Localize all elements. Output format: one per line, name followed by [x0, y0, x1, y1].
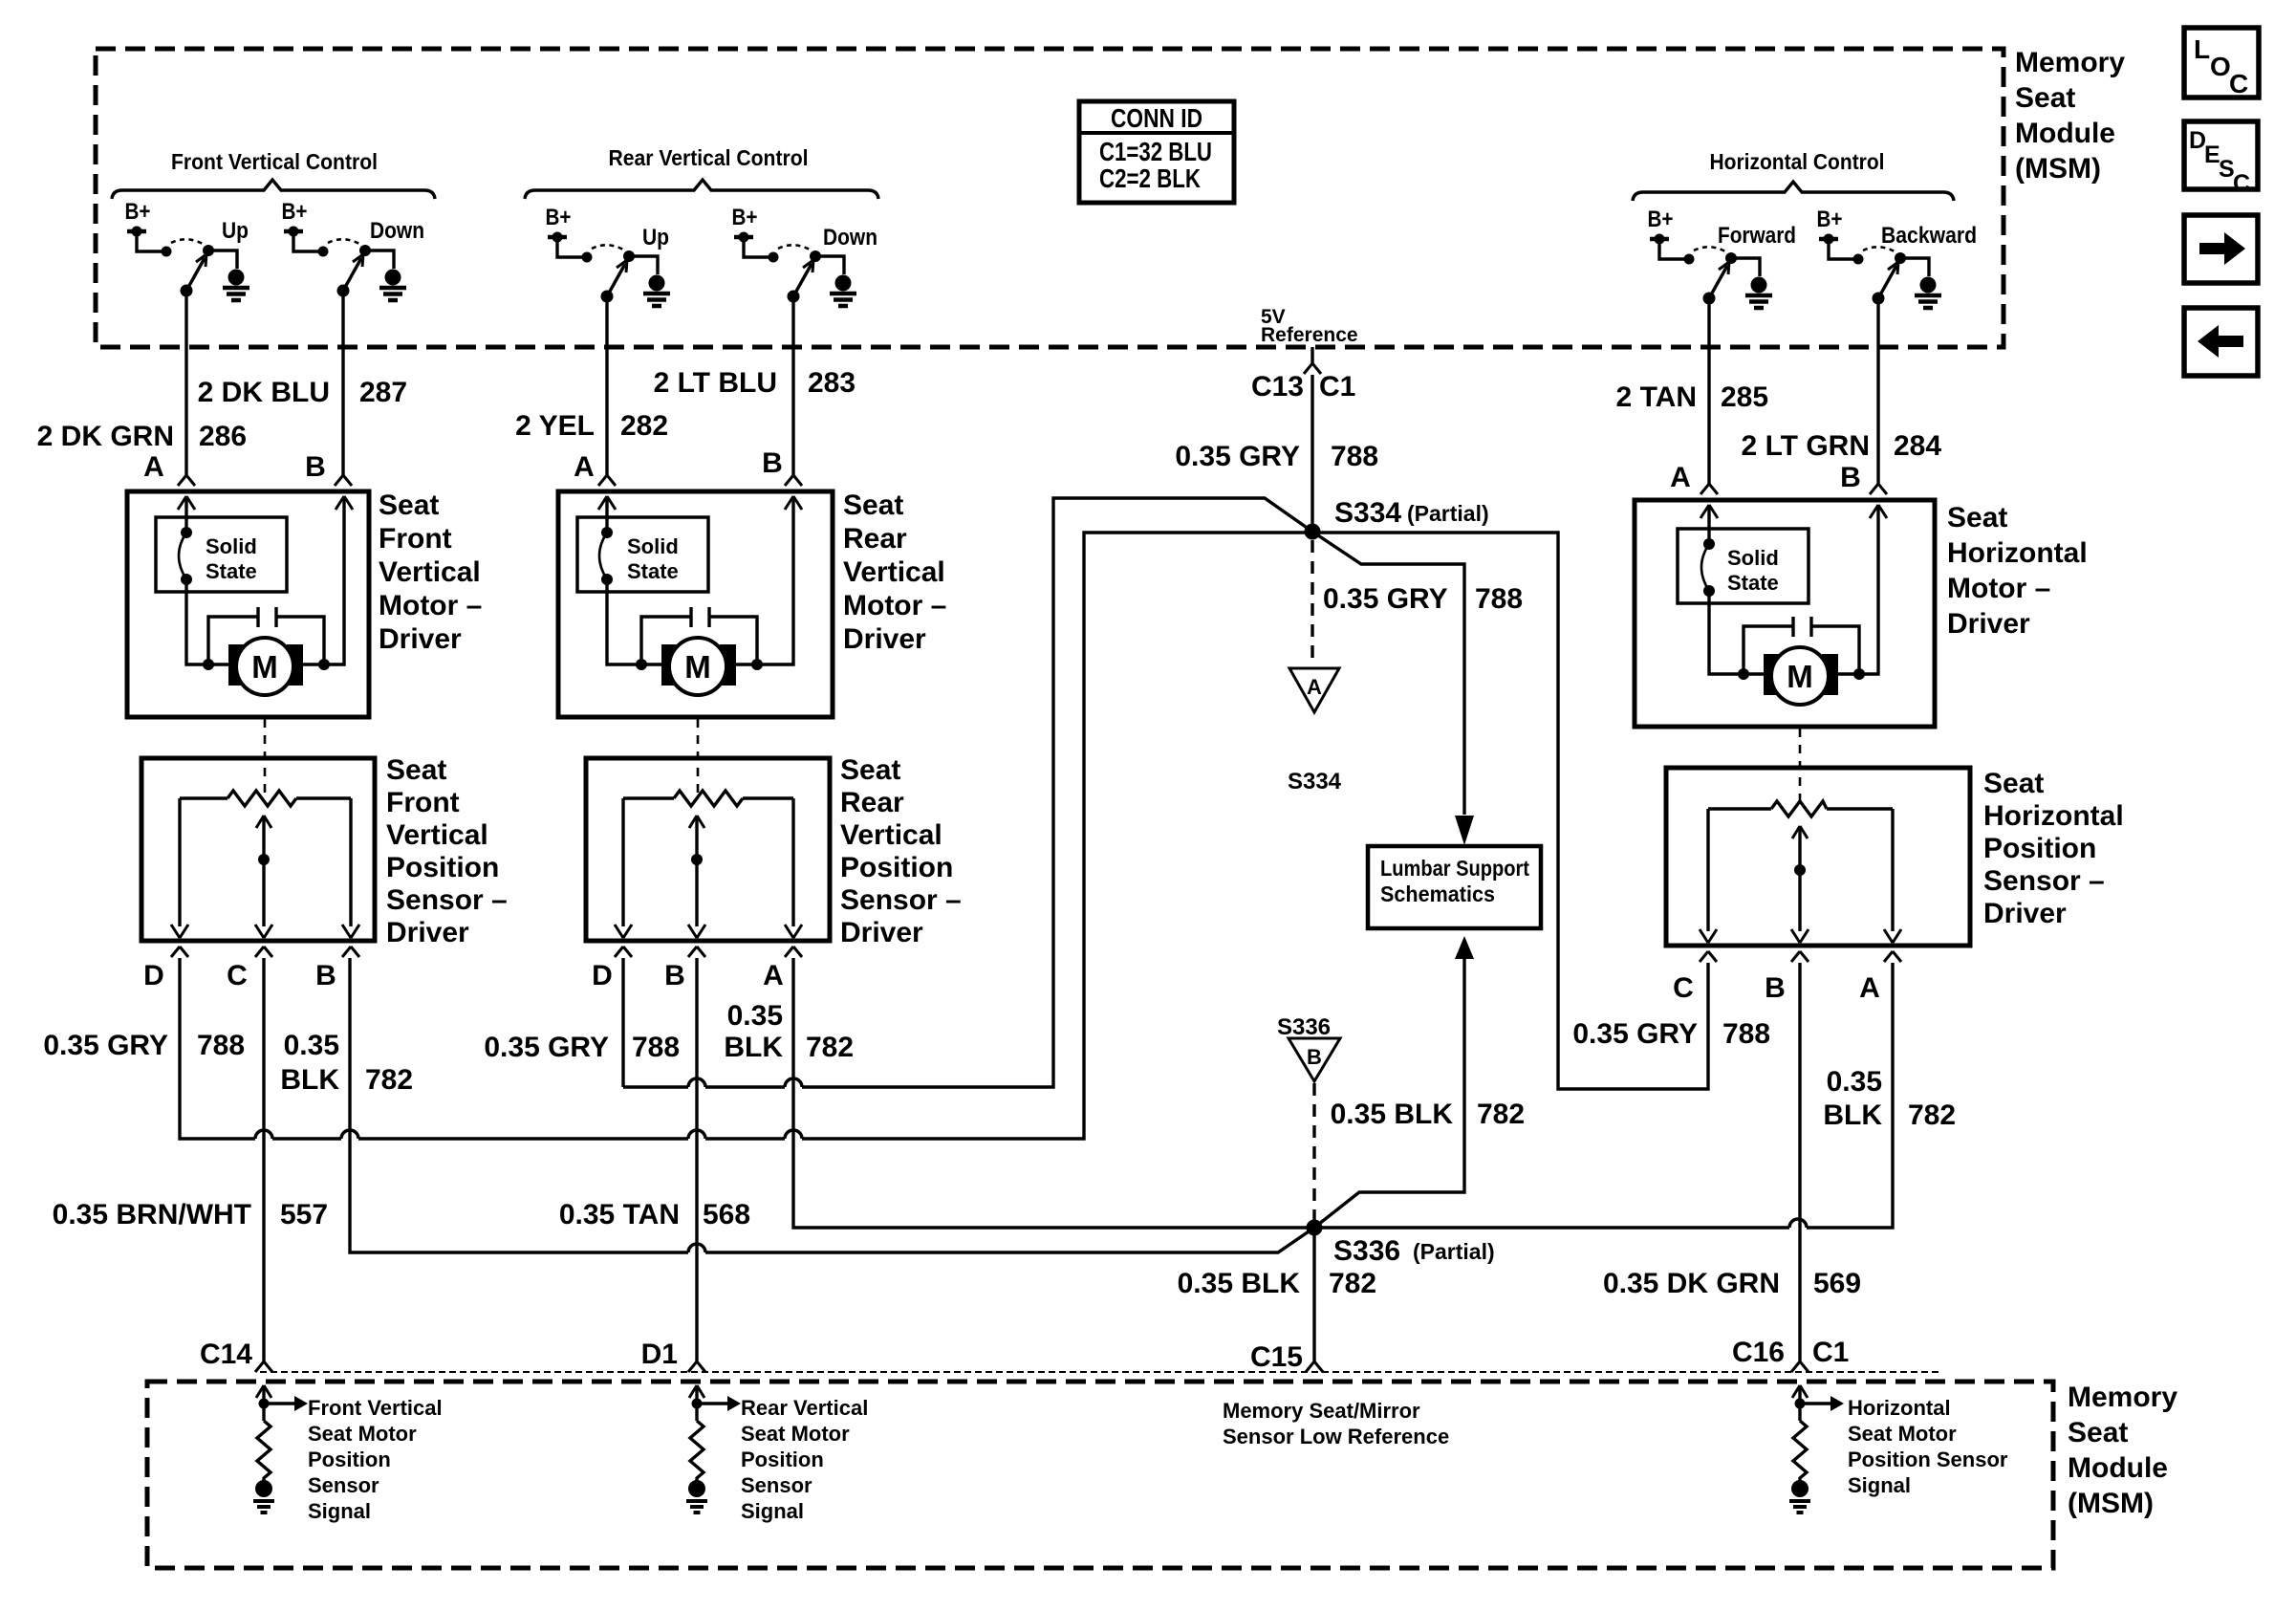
svg-text:782: 782: [806, 1032, 854, 1063]
capacitor bridge (rear): [641, 617, 757, 664]
svg-text:Rear Vertical: Rear Vertical: [741, 1396, 868, 1420]
svg-text:Position Sensor: Position Sensor: [1848, 1448, 2008, 1471]
svg-text:Front: Front: [386, 787, 460, 818]
svg-text:C: C: [1673, 972, 1694, 1004]
wire 2 DK GRN 286 (front A): [184, 291, 187, 475]
svg-text:Solid: Solid: [1727, 546, 1779, 570]
motor M (rear): [661, 644, 678, 686]
horizontal sensor B signal wire to C16: [1798, 963, 1801, 1361]
S336 to C15 wire: [1312, 1228, 1315, 1361]
label: Seat Horizontal Position Sensor - Driver: [1983, 768, 2124, 929]
svg-text:B: B: [315, 960, 336, 991]
svg-text:Sensor Low Reference: Sensor Low Reference: [1223, 1425, 1449, 1448]
svg-text:BLK: BLK: [1823, 1099, 1882, 1131]
wire 2 LT GRN 284 (horizontal B): [1876, 298, 1879, 484]
svg-text:C1=32 BLU: C1=32 BLU: [1099, 137, 1212, 166]
dashed link horizontal motor to sensor: [1799, 729, 1802, 807]
svg-text:Driver: Driver: [840, 917, 923, 948]
svg-text:CONN ID: CONN ID: [1111, 103, 1202, 133]
svg-text:M: M: [1787, 659, 1813, 694]
svg-text:0.35 GRY: 0.35 GRY: [1175, 441, 1300, 472]
svg-text:Backward: Backward: [1881, 223, 1977, 249]
svg-text:Memory: Memory: [2068, 1382, 2177, 1413]
svg-text:(Partial): (Partial): [1413, 1239, 1495, 1264]
DESC icon box: [2184, 121, 2258, 197]
svg-text:2 LT BLU: 2 LT BLU: [654, 367, 777, 399]
right arrow icon box: [2184, 215, 2258, 283]
svg-text:Up: Up: [222, 218, 249, 244]
solid state box (horizontal): [1678, 529, 1809, 603]
motor M (horizontal): [1764, 654, 1780, 695]
brace rear vertical: [525, 180, 878, 199]
svg-text:B: B: [1307, 1045, 1322, 1069]
CONN ID table: [1079, 101, 1234, 203]
solid state box (front): [156, 517, 287, 592]
svg-text:Vertical: Vertical: [379, 556, 481, 588]
svg-text:782: 782: [1329, 1268, 1376, 1299]
rear sensor pin chevrons and labels D B A: [615, 947, 632, 957]
svg-text:D: D: [592, 960, 613, 991]
svg-text:Reference: Reference: [1261, 324, 1358, 346]
Seat Rear Vertical Position Sensor - Driver box: [586, 758, 830, 941]
label: Seat Front Vertical Motor - Driver: [379, 490, 482, 655]
svg-text:Motor –: Motor –: [1947, 573, 2050, 604]
label: Rear Vertical Seat Motor Position Sensor Signal: [741, 1396, 868, 1523]
svg-text:B: B: [1765, 972, 1786, 1004]
svg-text:Sensor –: Sensor –: [386, 884, 508, 916]
svg-text:Sensor: Sensor: [308, 1473, 379, 1497]
Seat Horizontal Motor - Driver box: [1635, 500, 1935, 727]
svg-text:Solid: Solid: [627, 534, 679, 558]
svg-text:C: C: [227, 960, 248, 991]
svg-text:S336: S336: [1277, 1014, 1331, 1040]
svg-text:2 DK GRN: 2 DK GRN: [37, 421, 174, 452]
svg-text:Driver: Driver: [1983, 898, 2067, 929]
svg-text:788: 788: [632, 1032, 680, 1063]
label: Horizontal Seat Motor Position Sensor Signal: [1848, 1396, 2008, 1497]
svg-text:D1: D1: [641, 1339, 678, 1370]
svg-text:285: 285: [1721, 381, 1768, 413]
capacitor bridge (front): [208, 617, 324, 664]
resistor to ground under C16: [1789, 1385, 1844, 1513]
svg-text:Seat: Seat: [379, 490, 439, 521]
svg-text:C15: C15: [1250, 1341, 1303, 1373]
svg-text:Seat: Seat: [2015, 82, 2075, 114]
dashed link front motor to sensor: [264, 719, 267, 796]
svg-text:0.35 GRY: 0.35 GRY: [1323, 583, 1448, 615]
svg-text:A: A: [574, 451, 595, 483]
label: Seat Front Vertical Position Sensor - Driver: [386, 754, 508, 948]
svg-text:Seat Motor: Seat Motor: [308, 1422, 417, 1446]
svg-text:B: B: [762, 447, 783, 479]
front sensor C signal wire to C14: [262, 958, 265, 1361]
svg-text:Signal: Signal: [308, 1499, 371, 1523]
svg-text:Driver: Driver: [843, 623, 926, 655]
label: Seat Horizontal Motor - Driver: [1947, 502, 2088, 640]
S336 bus: rear sensor A to horizontal sensor A: [793, 958, 1893, 1228]
label: Memory Seat Module (MSM) bottom right: [2068, 1382, 2177, 1519]
svg-text:B: B: [664, 960, 685, 991]
svg-text:Position: Position: [741, 1448, 824, 1471]
svg-text:788: 788: [197, 1030, 245, 1061]
resistor to ground under D1: [686, 1385, 741, 1513]
svg-text:0.35: 0.35: [284, 1030, 339, 1061]
svg-text:Sensor –: Sensor –: [840, 884, 962, 916]
dashed wire S334 to triangle A: [1310, 540, 1313, 665]
svg-text:C16: C16: [1732, 1337, 1785, 1368]
svg-text:B+: B+: [125, 199, 151, 225]
svg-text:Motor –: Motor –: [379, 590, 482, 621]
svg-text:B: B: [1840, 462, 1861, 493]
svg-text:782: 782: [365, 1064, 413, 1096]
motor M (front): [228, 644, 245, 686]
svg-text:C1: C1: [1319, 371, 1355, 403]
svg-text:B+: B+: [546, 205, 572, 230]
svg-text:State: State: [206, 559, 257, 583]
horizontal sensor pin chevrons and labels C B A: [1700, 951, 1717, 962]
svg-text:Seat: Seat: [1947, 502, 2007, 533]
svg-text:557: 557: [280, 1199, 328, 1230]
return arrow from S336 into lumbar box bottom: [1455, 936, 1474, 959]
capacitor bridge (horizontal): [1744, 626, 1859, 674]
wire 2 DK BLU 287 (front B): [341, 291, 344, 475]
svg-text:282: 282: [620, 410, 668, 442]
svg-text:State: State: [1727, 571, 1779, 595]
svg-text:B+: B+: [732, 205, 758, 230]
svg-text:Solid: Solid: [206, 534, 257, 558]
svg-text:0.35 DK GRN: 0.35 DK GRN: [1603, 1268, 1780, 1299]
svg-text:Position: Position: [308, 1448, 391, 1471]
svg-text:Front Vertical: Front Vertical: [308, 1396, 443, 1420]
svg-text:M: M: [684, 649, 711, 685]
svg-text:Sensor: Sensor: [741, 1473, 812, 1497]
label: Memory Seat/Mirror Sensor Low Reference: [1223, 1399, 1449, 1448]
svg-text:Horizontal Control: Horizontal Control: [1710, 149, 1885, 174]
svg-text:283: 283: [808, 367, 856, 399]
svg-text:(MSM): (MSM): [2015, 153, 2101, 185]
svg-text:Memory: Memory: [2015, 47, 2125, 78]
svg-text:0.35 GRY: 0.35 GRY: [1572, 1018, 1698, 1050]
LOC icon box: [2184, 28, 2259, 98]
switch Horizontal Forward with B+ and ground: [1650, 234, 1772, 309]
svg-text:Position: Position: [386, 852, 499, 883]
svg-text:Down: Down: [823, 225, 877, 250]
svg-text:2 DK BLU: 2 DK BLU: [198, 377, 330, 408]
svg-text:788: 788: [1331, 441, 1378, 472]
svg-text:Motor –: Motor –: [843, 590, 946, 621]
svg-text:(Partial): (Partial): [1407, 501, 1489, 526]
svg-text:Horizontal: Horizontal: [1983, 800, 2124, 832]
front sensor B wire to S336 (0.35 BLK 782): [350, 958, 1314, 1252]
arrowhead into lumbar box: [1455, 816, 1474, 845]
svg-text:Seat Motor: Seat Motor: [741, 1422, 850, 1446]
wire S334 to rear sensor D (0.35 GRY 788): [623, 498, 1312, 1087]
svg-text:782: 782: [1908, 1099, 1956, 1131]
svg-text:B+: B+: [282, 199, 308, 225]
solid state box (rear): [577, 517, 708, 592]
svg-text:Sensor –: Sensor –: [1983, 865, 2105, 897]
Seat Front Vertical Position Sensor - Driver box: [141, 758, 375, 941]
svg-text:Memory Seat/Mirror: Memory Seat/Mirror: [1223, 1399, 1420, 1423]
svg-text:Vertical: Vertical: [840, 819, 942, 851]
svg-text:M: M: [251, 649, 278, 685]
svg-text:Down: Down: [370, 218, 424, 244]
svg-text:Front: Front: [379, 523, 452, 555]
resistor to ground under C14: [253, 1385, 308, 1513]
svg-text:0.35: 0.35: [1827, 1066, 1882, 1098]
svg-text:Seat: Seat: [1983, 768, 2044, 799]
switch Front Down with B+ and ground: [284, 227, 406, 301]
svg-text:A: A: [143, 451, 164, 483]
svg-text:A: A: [1670, 462, 1691, 493]
svg-text:0.35: 0.35: [727, 1000, 783, 1032]
label: Seat Rear Vertical Position Sensor - Driver: [840, 754, 962, 948]
label: Seat Rear Vertical Motor - Driver: [843, 490, 946, 655]
off-page triangle A (S334): [1289, 668, 1339, 712]
splice S334: [1305, 524, 1321, 540]
svg-text:A: A: [1307, 675, 1322, 699]
svg-text:Seat: Seat: [386, 754, 446, 786]
svg-text:Schematics: Schematics: [1380, 882, 1495, 906]
svg-text:C14: C14: [200, 1339, 252, 1370]
Lumbar Support Schematics box: [1368, 846, 1541, 928]
svg-text:Lumbar Support: Lumbar Support: [1380, 856, 1529, 881]
svg-text:O: O: [2210, 52, 2231, 81]
splice S336: [1307, 1220, 1323, 1236]
svg-text:Position: Position: [840, 852, 953, 883]
left arrow icon box: [2184, 308, 2258, 376]
svg-text:Seat: Seat: [843, 490, 903, 521]
svg-text:Forward: Forward: [1718, 223, 1796, 249]
wire 5V ref C13 to S334: [1310, 375, 1313, 532]
svg-text:Rear Vertical Control: Rear Vertical Control: [609, 145, 809, 170]
svg-text:L: L: [2194, 34, 2210, 64]
connector chevrons C14 D1 C15 C16: [255, 1361, 272, 1372]
svg-text:B+: B+: [1648, 207, 1674, 232]
off-page triangle B (S336): [1289, 1038, 1340, 1081]
svg-text:B: B: [305, 451, 326, 483]
C13 connector stub: [1310, 347, 1313, 363]
svg-text:788: 788: [1475, 583, 1523, 615]
svg-text:Horizontal: Horizontal: [1947, 537, 2088, 569]
svg-text:Position: Position: [1983, 833, 2096, 864]
svg-text:Seat Motor: Seat Motor: [1848, 1422, 1957, 1446]
dashed wire triangle B to S336: [1312, 1083, 1315, 1220]
rear sensor D wire from chevron: [621, 958, 624, 1087]
svg-text:A: A: [763, 960, 784, 991]
Seat Horizontal Position Sensor - Driver box: [1666, 768, 1970, 946]
wire S334 to horizontal sensor C (0.35 GRY 788): [1312, 533, 1708, 1089]
svg-text:788: 788: [1722, 1018, 1770, 1050]
svg-text:0.35 GRY: 0.35 GRY: [484, 1032, 609, 1063]
label: Front Vertical Seat Motor Position Sensor Signal: [308, 1396, 443, 1523]
svg-text:C2=2 BLK: C2=2 BLK: [1099, 163, 1201, 193]
svg-text:568: 568: [703, 1199, 750, 1230]
svg-text:Seat: Seat: [2068, 1417, 2128, 1448]
svg-text:Front Vertical Control: Front Vertical Control: [171, 149, 378, 174]
thin dashed connector face line: [260, 1371, 1940, 1373]
svg-text:2 YEL: 2 YEL: [515, 410, 595, 442]
switch Front Up with B+ and ground: [127, 227, 249, 301]
svg-text:D: D: [143, 960, 164, 991]
wire S334 to lumbar arrow: [1312, 532, 1464, 815]
svg-text:2 LT GRN: 2 LT GRN: [1742, 430, 1870, 462]
svg-text:Driver: Driver: [379, 623, 462, 655]
svg-text:State: State: [627, 559, 679, 583]
svg-text:B+: B+: [1817, 207, 1843, 232]
svg-text:0.35 BLK: 0.35 BLK: [1178, 1268, 1301, 1299]
svg-text:C: C: [2233, 170, 2250, 197]
svg-text:Driver: Driver: [386, 917, 469, 948]
svg-text:0.35 BLK: 0.35 BLK: [1331, 1099, 1454, 1130]
svg-text:BLK: BLK: [724, 1032, 783, 1063]
svg-text:569: 569: [1813, 1268, 1861, 1299]
svg-text:782: 782: [1477, 1099, 1525, 1130]
svg-text:Seat: Seat: [840, 754, 900, 786]
svg-text:Rear: Rear: [843, 523, 907, 555]
svg-text:Vertical: Vertical: [386, 819, 488, 851]
svg-text:2 TAN: 2 TAN: [1616, 381, 1697, 413]
svg-text:Vertical: Vertical: [843, 556, 945, 588]
svg-text:Driver: Driver: [1947, 608, 2030, 640]
svg-text:(MSM): (MSM): [2068, 1488, 2154, 1519]
svg-text:Signal: Signal: [741, 1499, 804, 1523]
rear sensor B signal wire to D1: [695, 958, 698, 1361]
svg-text:0.35 GRY: 0.35 GRY: [43, 1030, 168, 1061]
svg-text:286: 286: [199, 421, 247, 452]
svg-text:Up: Up: [642, 225, 669, 250]
switch Rear Down with B+ and ground: [734, 232, 856, 307]
brace front vertical: [112, 180, 435, 199]
svg-text:0.35 BRN/WHT: 0.35 BRN/WHT: [53, 1199, 251, 1230]
switch Horizontal Backward with B+ and ground: [1819, 234, 1941, 309]
svg-text:S334: S334: [1334, 497, 1401, 529]
front sensor pin chevrons and labels D C B: [171, 947, 188, 957]
svg-text:BLK: BLK: [280, 1064, 339, 1096]
Seat Rear Vertical Motor - Driver box: [558, 491, 833, 717]
label: Memory Seat Module (MSM) top right: [2015, 47, 2125, 185]
svg-text:Horizontal: Horizontal: [1848, 1396, 1951, 1420]
svg-text:Module: Module: [2068, 1452, 2168, 1484]
svg-text:C13: C13: [1251, 371, 1304, 403]
svg-text:0.35 TAN: 0.35 TAN: [559, 1199, 680, 1230]
svg-text:A: A: [1859, 972, 1880, 1004]
switch Rear Up with B+ and ground: [548, 232, 670, 307]
svg-text:284: 284: [1894, 430, 1941, 462]
brace horizontal: [1633, 182, 1954, 201]
Memory Seat Module dashed box (bottom): [147, 1382, 2053, 1568]
wire 2 LT BLU 283 (rear B): [791, 296, 794, 475]
svg-text:S334: S334: [1288, 769, 1342, 795]
svg-text:287: 287: [359, 377, 407, 408]
Seat Front Vertical Motor - Driver box: [127, 491, 369, 717]
svg-text:Module: Module: [2015, 118, 2115, 149]
wire S334 to front sensor D (0.35 GRY 788): [180, 533, 1312, 1139]
svg-text:S336: S336: [1333, 1235, 1400, 1267]
svg-text:C1: C1: [1812, 1337, 1849, 1368]
Memory Seat Module dashed box (top): [96, 49, 2004, 347]
wire 2 TAN 285 (horizontal A): [1707, 298, 1710, 484]
svg-text:Signal: Signal: [1848, 1473, 1911, 1497]
svg-text:Rear: Rear: [840, 787, 904, 818]
wire 2 YEL 282 (rear A): [605, 296, 608, 475]
svg-text:C: C: [2229, 69, 2248, 98]
dashed link rear motor to sensor: [697, 719, 700, 796]
